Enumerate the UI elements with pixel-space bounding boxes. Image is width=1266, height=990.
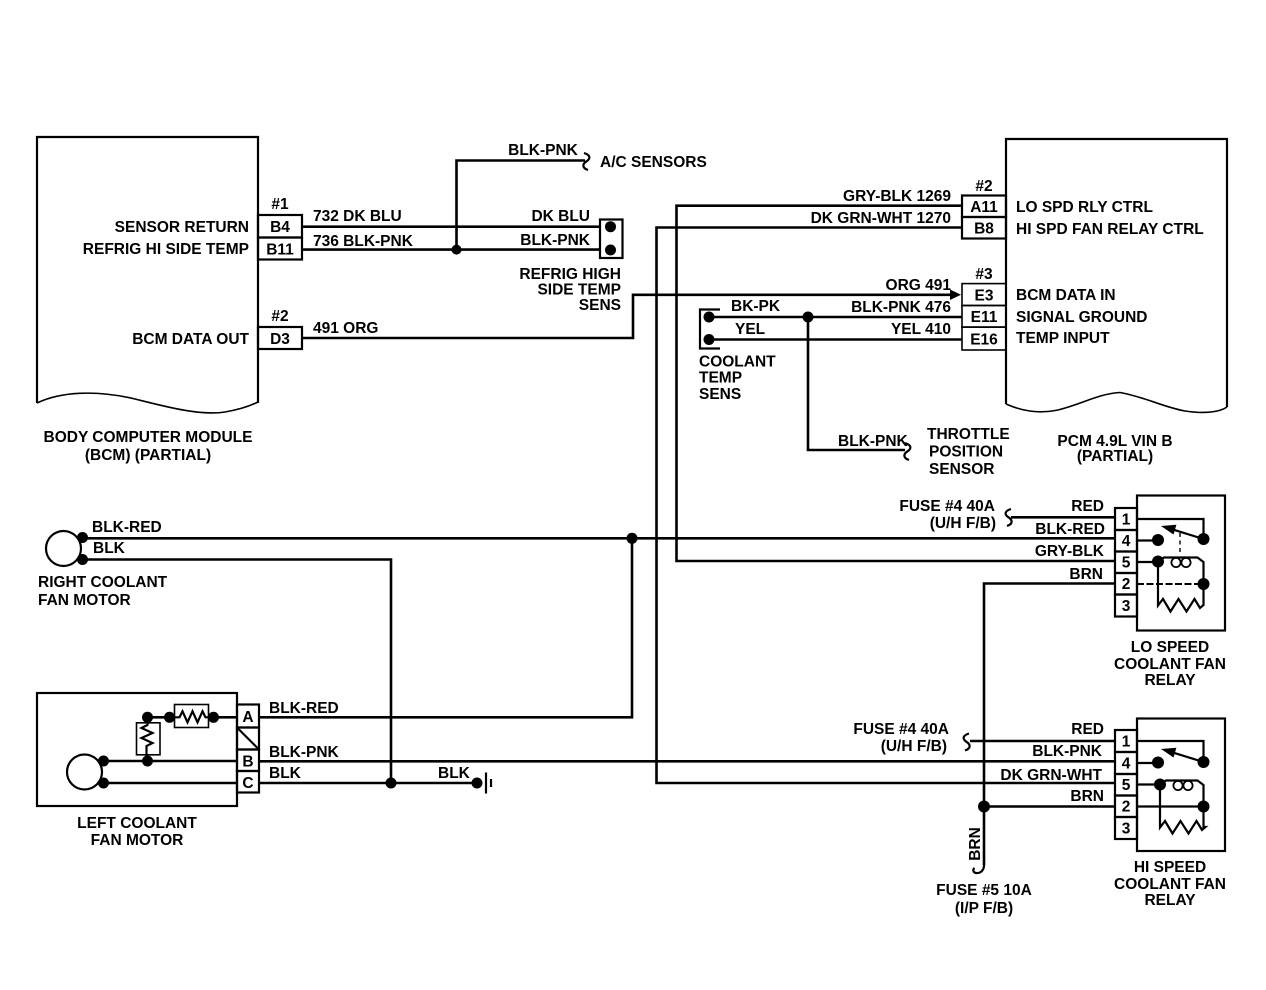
svg-text:FUSE #4 40A: FUSE #4 40A bbox=[853, 721, 949, 738]
svg-text:SENS: SENS bbox=[579, 297, 621, 314]
svg-text:BRN: BRN bbox=[1069, 566, 1103, 583]
svg-text:1: 1 bbox=[1122, 512, 1131, 529]
svg-text:SENSOR: SENSOR bbox=[929, 461, 994, 478]
svg-text:LEFT COOLANT: LEFT COOLANT bbox=[77, 815, 197, 832]
svg-text:POSITION: POSITION bbox=[929, 444, 1003, 461]
svg-text:COOLANT FAN: COOLANT FAN bbox=[1114, 656, 1226, 673]
svg-text:2: 2 bbox=[1122, 576, 1131, 593]
svg-text:#3: #3 bbox=[975, 266, 993, 283]
svg-text:B4: B4 bbox=[270, 219, 290, 236]
svg-text:HI SPD FAN RELAY CTRL: HI SPD FAN RELAY CTRL bbox=[1016, 221, 1204, 238]
svg-text:LO SPD RLY CTRL: LO SPD RLY CTRL bbox=[1016, 199, 1153, 216]
svg-text:BLK-RED: BLK-RED bbox=[92, 519, 162, 536]
svg-text:732 DK BLU: 732 DK BLU bbox=[313, 208, 402, 225]
svg-text:FAN MOTOR: FAN MOTOR bbox=[38, 592, 131, 609]
svg-text:RIGHT COOLANT: RIGHT COOLANT bbox=[38, 574, 168, 591]
svg-text:C: C bbox=[242, 775, 253, 792]
svg-text:BRN: BRN bbox=[967, 827, 984, 861]
svg-text:1: 1 bbox=[1122, 734, 1131, 751]
svg-text:GRY-BLK: GRY-BLK bbox=[1035, 543, 1105, 560]
svg-text:B8: B8 bbox=[974, 221, 994, 238]
svg-text:BLK: BLK bbox=[269, 765, 302, 782]
svg-text:5: 5 bbox=[1122, 555, 1131, 572]
svg-text:RELAY: RELAY bbox=[1144, 672, 1196, 689]
svg-text:REFRIG HI SIDE TEMP: REFRIG HI SIDE TEMP bbox=[83, 241, 249, 258]
svg-text:TEMP: TEMP bbox=[699, 370, 742, 387]
svg-text:COOLANT FAN: COOLANT FAN bbox=[1114, 876, 1226, 893]
svg-text:SIDE TEMP: SIDE TEMP bbox=[537, 282, 621, 299]
svg-text:(U/H F/B): (U/H F/B) bbox=[881, 738, 947, 755]
svg-text:COOLANT: COOLANT bbox=[699, 354, 776, 371]
svg-text:SENSOR RETURN: SENSOR RETURN bbox=[115, 219, 249, 236]
svg-text:BODY COMPUTER MODULE: BODY COMPUTER MODULE bbox=[44, 429, 253, 446]
svg-text:E11: E11 bbox=[971, 309, 998, 326]
svg-text:BRN: BRN bbox=[1070, 788, 1104, 805]
svg-text:491 ORG: 491 ORG bbox=[313, 320, 378, 337]
svg-text:DK BLU: DK BLU bbox=[531, 208, 590, 225]
svg-text:#2: #2 bbox=[271, 308, 288, 325]
svg-text:BLK: BLK bbox=[93, 540, 126, 557]
svg-text:RELAY: RELAY bbox=[1144, 892, 1196, 909]
svg-text:A: A bbox=[242, 709, 253, 726]
svg-text:E16: E16 bbox=[970, 332, 998, 349]
svg-text:E3: E3 bbox=[975, 288, 994, 305]
svg-text:FUSE #4 40A: FUSE #4 40A bbox=[899, 498, 995, 515]
svg-text:THROTTLE: THROTTLE bbox=[927, 426, 1010, 443]
svg-text:DK GRN-WHT 1270: DK GRN-WHT 1270 bbox=[811, 210, 951, 227]
svg-text:GRY-BLK 1269: GRY-BLK 1269 bbox=[843, 188, 951, 205]
svg-text:SIGNAL GROUND: SIGNAL GROUND bbox=[1016, 309, 1147, 326]
svg-text:3: 3 bbox=[1122, 598, 1131, 615]
svg-text:DK GRN-WHT: DK GRN-WHT bbox=[1000, 767, 1102, 784]
svg-text:4: 4 bbox=[1122, 533, 1131, 550]
svg-text:#1: #1 bbox=[271, 196, 289, 213]
svg-text:5: 5 bbox=[1122, 777, 1131, 794]
svg-text:BCM DATA OUT: BCM DATA OUT bbox=[132, 331, 249, 348]
svg-text:TEMP INPUT: TEMP INPUT bbox=[1016, 330, 1110, 347]
svg-text:BK-PK: BK-PK bbox=[731, 298, 781, 315]
svg-text:FAN MOTOR: FAN MOTOR bbox=[91, 832, 184, 849]
svg-text:2: 2 bbox=[1122, 799, 1131, 816]
svg-text:YEL: YEL bbox=[735, 321, 765, 338]
svg-text:A11: A11 bbox=[970, 199, 998, 216]
svg-text:D3: D3 bbox=[270, 331, 290, 348]
svg-text:A/C SENSORS: A/C SENSORS bbox=[600, 154, 707, 171]
svg-text:LO SPEED: LO SPEED bbox=[1131, 639, 1209, 656]
svg-text:ORG 491: ORG 491 bbox=[886, 277, 952, 294]
svg-text:BLK-RED: BLK-RED bbox=[1035, 521, 1105, 538]
svg-text:B11: B11 bbox=[266, 242, 294, 259]
svg-text:BLK-PNK 476: BLK-PNK 476 bbox=[851, 299, 951, 316]
svg-text:BLK: BLK bbox=[438, 765, 471, 782]
svg-text:BLK-PNK: BLK-PNK bbox=[1032, 743, 1103, 760]
svg-text:(U/H F/B): (U/H F/B) bbox=[930, 515, 996, 532]
svg-text:4: 4 bbox=[1122, 756, 1131, 773]
svg-text:(PARTIAL): (PARTIAL) bbox=[1077, 448, 1153, 465]
svg-text:YEL 410: YEL 410 bbox=[891, 321, 951, 338]
svg-text:#2: #2 bbox=[975, 178, 992, 195]
svg-text:RED: RED bbox=[1071, 721, 1104, 738]
svg-text:SENS: SENS bbox=[699, 386, 741, 403]
svg-text:BLK-PNK: BLK-PNK bbox=[838, 433, 909, 450]
svg-text:BLK-RED: BLK-RED bbox=[269, 700, 339, 717]
svg-text:HI SPEED: HI SPEED bbox=[1134, 859, 1206, 876]
svg-text:B: B bbox=[242, 754, 253, 771]
svg-text:736 BLK-PNK: 736 BLK-PNK bbox=[313, 233, 414, 250]
svg-text:FUSE #5 10A: FUSE #5 10A bbox=[936, 882, 1032, 899]
svg-text:3: 3 bbox=[1122, 821, 1131, 838]
svg-text:RED: RED bbox=[1071, 498, 1104, 515]
svg-text:BLK-PNK: BLK-PNK bbox=[508, 142, 579, 159]
svg-text:REFRIG HIGH: REFRIG HIGH bbox=[519, 266, 621, 283]
svg-text:(BCM) (PARTIAL): (BCM) (PARTIAL) bbox=[85, 447, 211, 464]
svg-text:(I/P F/B): (I/P F/B) bbox=[955, 900, 1013, 917]
svg-text:BCM DATA IN: BCM DATA IN bbox=[1016, 287, 1116, 304]
svg-text:BLK-PNK: BLK-PNK bbox=[520, 232, 591, 249]
svg-text:BLK-PNK: BLK-PNK bbox=[269, 744, 340, 761]
